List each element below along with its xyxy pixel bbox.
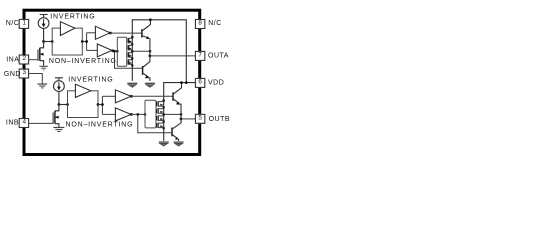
svg-text:5: 5 (198, 115, 202, 122)
node loop A left junction (51, 40, 54, 43)
ground G1 (chain A) (127, 83, 137, 87)
node loop B right junction (97, 103, 100, 106)
svg-text:N/C: N/C (208, 20, 222, 27)
svg-text:OUTA: OUTA (208, 53, 229, 60)
svg-text:INB: INB (6, 119, 19, 126)
wire OUTA to pin 7 (150, 55, 196, 57)
ground G2 (Q2 emitter) (145, 83, 155, 87)
wire B2 output to Q3 base (131, 95, 173, 97)
node chain B m6/m7 (163, 120, 165, 122)
wire current source to input node A (43, 29, 45, 42)
op-amp B3 driver buffer (115, 108, 131, 121)
wire pin 3 GND (29, 74, 43, 84)
transistor M2 (cluster A) (127, 45, 132, 50)
wire A3 output to gate ring and emitter line (112, 50, 150, 52)
wire splitter to buffer A3 (87, 49, 98, 51)
pin 3 box (19, 69, 28, 78)
path loop A (inverting/non-inverting) (52, 28, 82, 55)
wire OUTB to pin 5 (181, 118, 195, 120)
wire pin 4 to QB gate (29, 122, 53, 124)
wire branch to Q4 base (138, 114, 172, 132)
node rail to chain B (162, 99, 165, 102)
gate bus ring A (117, 37, 127, 66)
svg-text:3: 3 (22, 69, 26, 76)
svg-text:NON–INVERTING: NON–INVERTING (49, 58, 117, 65)
svg-text:INVERTING: INVERTING (68, 77, 113, 84)
transistor Q3 (channel B top NPN) (173, 83, 182, 119)
transistor M4 (cluster A) (127, 59, 132, 64)
pin 5 box (195, 114, 204, 123)
node splitter A (85, 40, 88, 43)
node chain A m1/m2 (131, 43, 133, 45)
wire input node to loop A (44, 41, 53, 43)
wire splitter to buffer B3 (102, 113, 115, 115)
node branch A (113, 50, 116, 53)
chain A vertical (131, 37, 133, 81)
op-amp A2 driver buffer (95, 26, 110, 39)
node chain B m5/m6 (163, 106, 165, 108)
pin 8 box (195, 20, 204, 29)
node loop B left junction (66, 103, 69, 106)
wire branch to Q2 base (115, 51, 143, 68)
wire loop A to splitter (82, 33, 86, 51)
node A2 output (109, 32, 112, 35)
node B input junction (58, 103, 61, 106)
op-amp B2 driver buffer (115, 90, 131, 103)
svg-text:GND: GND (4, 71, 21, 78)
IC body border (24, 10, 200, 154)
node Q3 collector on VDD wire (180, 81, 183, 84)
transistor M1 (cluster A) (127, 38, 132, 43)
ground G4 (Q4 emitter) (174, 142, 184, 146)
VDD rail A (132, 20, 186, 83)
svg-text:1: 1 (22, 20, 26, 27)
svg-text:OUTB: OUTB (209, 116, 230, 123)
node OUTA (149, 55, 152, 58)
svg-text:2: 2 (22, 55, 26, 62)
transistor M6 (cluster B) (157, 108, 164, 113)
node rail to chain A (131, 36, 134, 39)
current source I1 (38, 18, 49, 29)
op-amp A3 driver buffer (97, 44, 112, 57)
pin 6 box (195, 78, 204, 87)
node loop A right junction (81, 40, 84, 43)
node gate wire to ring B (144, 113, 147, 116)
wire splitter to buffer A2 (87, 32, 96, 34)
node chain A m2/m3 (131, 57, 133, 59)
node B3 output (130, 113, 133, 116)
wire input node to loop B (59, 104, 68, 106)
chain B vertical (163, 101, 165, 142)
input mosfet QA (INA) (38, 42, 44, 66)
svg-text:8: 8 (198, 20, 202, 27)
transistor M3 (cluster A) (127, 52, 132, 57)
pin 7 box (195, 51, 204, 60)
transistor M5 (cluster B) (157, 101, 164, 106)
pin 1 box (19, 19, 28, 28)
ground G3 (chain B) (159, 142, 169, 146)
node OUTB (180, 118, 183, 121)
wire pin 2 to QA gate (29, 59, 38, 61)
node gate wire on emitter line B (180, 113, 183, 116)
transistor Q1 (channel A top NPN) (142, 20, 151, 56)
current source I2 vdd T-bar (55, 78, 63, 81)
node gate wire on chain A (131, 50, 134, 53)
svg-text:4: 4 (22, 119, 26, 126)
node gate wire on emitter line A (149, 50, 152, 53)
transistor M7 (cluster B) (157, 116, 164, 121)
pin 2 box (19, 55, 28, 64)
node A input junction (42, 40, 45, 43)
wire splitter to buffer B2 (102, 95, 115, 97)
svg-text:NON–INVERTING: NON–INVERTING (66, 121, 134, 128)
ground IG2 (GND pin) (38, 84, 48, 88)
wire B3 output to gate ring and emitter line (131, 113, 181, 115)
svg-text:INA: INA (6, 56, 19, 63)
svg-text:7: 7 (198, 52, 202, 59)
svg-text:INVERTING: INVERTING (50, 14, 95, 21)
op-amp A1 inverting buffer (60, 22, 75, 36)
gate bus ring B (145, 100, 156, 128)
node gate wire to ring A (116, 50, 119, 53)
node A3 output (112, 49, 115, 52)
node Q1 collector on rail (149, 18, 152, 21)
node branch B (137, 113, 140, 116)
node B2 output (130, 95, 133, 98)
node chain A m4 (131, 64, 133, 66)
node rail A drop on VDD wire (185, 81, 188, 84)
ground IG3 (QB source) (53, 128, 64, 132)
current source I1 vdd T-bar (40, 15, 48, 18)
op-amp B1 inverting buffer (75, 84, 90, 97)
svg-text:VDD: VDD (208, 80, 224, 87)
transistor Q2 (channel A bottom NPN) (143, 56, 150, 81)
node gate wire on chain B (162, 113, 165, 116)
input mosfet QB (INB) (53, 105, 59, 128)
wire current source to input node B (58, 92, 60, 105)
transistor M8 (cluster B) (157, 123, 164, 128)
node chain B m8 (163, 127, 165, 129)
node splitter B (101, 103, 104, 106)
pin 4 box (19, 119, 28, 128)
wire A2 output to Q1 base (110, 32, 142, 34)
svg-text:N/C: N/C (6, 20, 20, 27)
current source I2 (54, 81, 65, 92)
transistor Q4 (channel B bottom NPN) (172, 119, 181, 141)
wire loop B to splitter (98, 96, 102, 114)
svg-text:6: 6 (198, 79, 202, 86)
VDD rail B (to pin 6) (164, 83, 196, 101)
ground IG1 (QA source) (39, 66, 47, 70)
path loop B (inverting/non-inverting) (68, 91, 99, 118)
